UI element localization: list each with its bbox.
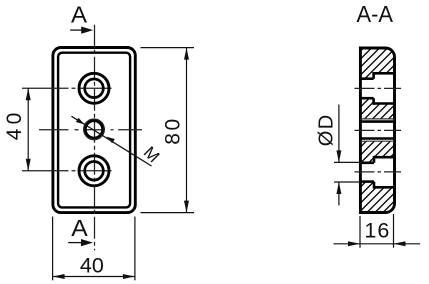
dim OD dimension line upper segment	[338, 105, 340, 163]
section centerline upper hole	[355, 87, 402, 89]
dimension 40 bottom: extension line right	[134, 217, 136, 281]
cutting plane arrow top	[70, 29, 84, 31]
lower bore bottom line	[359, 180, 374, 183]
svg-text:16: 16	[364, 218, 389, 242]
section hatching	[174, 30, 429, 230]
top hole bore circle	[85, 79, 104, 98]
dim 40 left arrow down	[26, 159, 31, 171]
dim 16 arrow pointing right	[348, 241, 360, 246]
svg-text:A: A	[71, 1, 88, 27]
lower counterbore step wall upper	[373, 156, 376, 163]
dimension 80: extension line bottom	[141, 212, 195, 214]
M hole core lower line	[359, 137, 396, 140]
dimension 40 left: dimension line	[27, 88, 29, 171]
M thread upper thin line	[360, 118, 394, 120]
dim 80 arrow down	[184, 201, 189, 213]
leader arrow lower	[106, 137, 115, 144]
lower counterbore step wall lower	[373, 182, 376, 189]
section centerline M hole	[355, 129, 402, 131]
M thread lower thin line	[360, 140, 394, 142]
dim 80 arrow up	[184, 48, 189, 60]
dim 16: extension line left	[359, 216, 361, 248]
centerline bottom hole horizontal	[22, 170, 112, 172]
dim OD arrow down	[336, 150, 341, 162]
dim OD arrow up	[336, 182, 341, 194]
dim OD dimension line lower segment	[338, 182, 340, 206]
dim OD: extension line lower	[334, 181, 362, 183]
leader arrow upper	[76, 118, 85, 125]
upper bore bottom line	[359, 97, 374, 100]
lower bore top line	[359, 162, 374, 165]
plate inner edge line	[58, 53, 130, 208]
svg-text:A: A	[71, 215, 88, 241]
dimension 40 bottom: extension line left	[52, 217, 54, 281]
upper counterbore top line	[374, 72, 396, 75]
svg-text:A-A: A-A	[357, 1, 394, 27]
dimension 40 bottom: dimension line	[53, 276, 135, 278]
M hole core upper line	[359, 120, 396, 123]
dimension 80: extension line top	[141, 47, 195, 49]
dim OD: extension line upper	[334, 161, 362, 163]
svg-text:40: 40	[80, 253, 104, 277]
upper counterbore bottom line	[374, 102, 396, 105]
centerline top hole horizontal	[22, 87, 112, 89]
plate outer outline	[53, 48, 135, 213]
dim 16: extension line right	[393, 214, 395, 248]
upper bore top line	[359, 77, 374, 80]
top hole counterbore circle	[79, 73, 109, 103]
middle tapped hole thread circle	[84, 119, 105, 140]
dim 40 bottom arrow right	[123, 274, 135, 279]
dim 40 left arrow up	[26, 88, 31, 100]
lower counterbore bottom line	[374, 186, 396, 189]
leader line for thread callout M	[71, 116, 151, 166]
centerline middle hole horizontal	[39, 129, 142, 131]
dim 16 arrow pointing left	[394, 241, 406, 246]
bottom hole bore circle	[85, 162, 104, 181]
section outline	[360, 48, 394, 213]
section centerline lower hole	[355, 171, 402, 173]
dimension 80: dimension line	[186, 48, 188, 213]
bottom hole counterbore circle	[79, 156, 109, 186]
upper counterbore step wall lower	[372, 98, 375, 105]
centerline vertical (cutting plane A-A)	[94, 25, 96, 251]
cutting plane arrow bottom	[68, 242, 84, 244]
middle tapped hole core circle	[85, 121, 102, 138]
dim 40 bottom arrow left	[53, 274, 65, 279]
upper counterbore step wall upper	[372, 72, 375, 79]
dim 16 dimension line	[334, 243, 421, 245]
lower counterbore top line	[374, 156, 396, 159]
